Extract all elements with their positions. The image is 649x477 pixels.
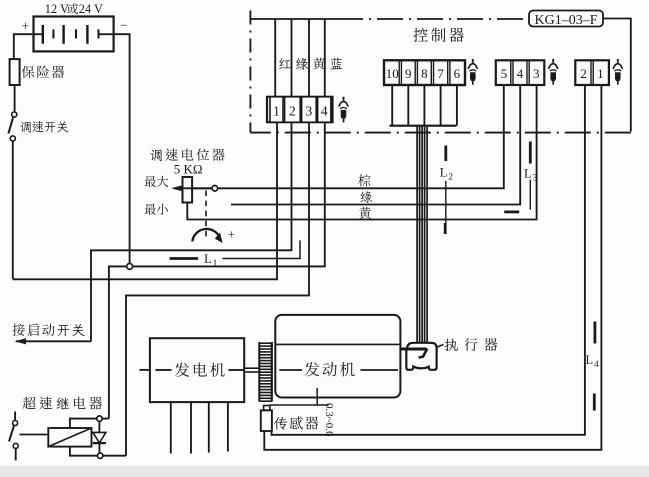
connector plug symbol (block 10-6): [468, 59, 478, 85]
svg-text:4: 4: [321, 103, 328, 118]
max label: [145, 176, 169, 187]
controller enclosure dash-dot boundary: [249, 11, 251, 133]
L2 cable marker: [440, 146, 453, 235]
potentiometer RP body: [183, 177, 193, 203]
air gap value 0.3-0.6: [323, 403, 335, 437]
wires terminals 1-4 rising to boundary: [274, 19, 276, 97]
controller label: [413, 28, 463, 42]
brown wire with wiper arrow to terminal 5: [174, 85, 504, 188]
battery label 12V or 24V: [45, 2, 103, 16]
svg-text:10: 10: [386, 66, 399, 81]
svg-text:L: L: [440, 165, 448, 179]
wire coil top to node: [70, 419, 97, 428]
terminal block 2-1: [575, 60, 609, 85]
wire color labels red green yellow blue: [279, 57, 342, 69]
svg-text:2: 2: [448, 171, 453, 181]
overspeed relay label: [23, 397, 102, 410]
svg-text:3: 3: [533, 66, 540, 81]
svg-text:KG1–03–F: KG1–03–F: [534, 13, 597, 28]
relay switch contact: [9, 412, 18, 461]
svg-text:3: 3: [305, 103, 312, 118]
connector header bar: [390, 125, 457, 127]
yellow wire pot bottom to terminal 3: [187, 85, 536, 220]
generator label: [175, 363, 225, 377]
green wire to terminal 4: [231, 85, 520, 205]
wire terminal 2 to sensor side: [272, 85, 585, 435]
connector plug symbol (block 5-4-3): [548, 59, 558, 85]
svg-text:0.3~0.6: 0.3~0.6: [323, 403, 335, 437]
svg-text:L: L: [524, 166, 532, 180]
engine label dashes: [279, 369, 302, 371]
engine inner line: [275, 343, 400, 345]
svg-text:L: L: [586, 353, 594, 367]
adjustment dashed link: [205, 191, 207, 238]
wires below block 10-6 to header: [391, 85, 393, 126]
wire bundle to actuator: [417, 126, 427, 342]
terminal block 1-4: [267, 97, 333, 122]
svg-text:2: 2: [580, 66, 587, 81]
svg-text:+: +: [21, 19, 29, 34]
actuator label: [444, 338, 497, 351]
wiper terminal node: [212, 186, 218, 192]
wire KG box to right edge: [603, 19, 631, 132]
wire bus y296 (terminal 3 to relay bottom): [126, 122, 309, 456]
sensor body: [261, 406, 272, 432]
svg-text:+: +: [228, 227, 235, 241]
L4 cable marker: [586, 322, 600, 411]
diode VD: [93, 421, 106, 453]
engine box: [275, 315, 400, 398]
flywheel ring gear: [259, 342, 272, 402]
junction node diode bottom: [98, 453, 103, 458]
generator label dashes: [156, 369, 172, 371]
actuator body: [406, 343, 436, 370]
svg-text:5: 5: [501, 66, 508, 81]
svg-text:3: 3: [533, 172, 538, 182]
L3 cable marker: [504, 142, 537, 212]
generator left stub: [139, 369, 150, 371]
generator output pins: [170, 402, 172, 453]
yellow label: [359, 207, 371, 219]
terminal block 5-4-3: [496, 60, 545, 85]
actuator lever: [419, 349, 428, 358]
svg-text:L: L: [204, 252, 212, 266]
wire battery+ to fuse: [14, 34, 34, 59]
generator box: [150, 338, 244, 402]
air gap dimension mark: [270, 388, 329, 405]
svg-text:−: −: [120, 18, 127, 33]
engine label: [305, 362, 355, 377]
wire battery- down to node: [114, 34, 130, 264]
svg-text:2: 2: [289, 103, 296, 118]
svg-text:4: 4: [594, 359, 599, 369]
switch S1 label: [20, 121, 68, 133]
L1 cable marker: [170, 240, 300, 268]
sensor label: [274, 416, 318, 429]
brown label: [358, 174, 370, 186]
actuator link bar: [400, 348, 426, 351]
terminal block 10-6: [384, 60, 465, 85]
green label: [360, 191, 372, 203]
wire contact to relay coil: [20, 434, 49, 436]
scan band bottom: [0, 466, 649, 477]
wire terminal 1 to sensor bottom: [264, 85, 601, 450]
svg-text:1: 1: [273, 103, 280, 118]
potentiometer value 5 Kohm: [174, 161, 203, 176]
min label: [145, 204, 168, 215]
connector plug symbol (block 1-4): [339, 97, 349, 123]
actuator label tick: [437, 345, 444, 348]
battery minus terminal label: [120, 18, 127, 33]
fuse label: [22, 66, 64, 78]
potentiometer RP label: [150, 148, 225, 161]
wire fuse to switch: [14, 85, 16, 112]
svg-text:6: 6: [454, 66, 461, 81]
svg-text:4: 4: [517, 66, 524, 81]
wire coil bottom to node and riser: [70, 447, 98, 456]
svg-text:12 V: 12 V: [45, 2, 69, 16]
wire bus y266 (node to terminal 4, branch to relay): [109, 122, 325, 418]
battery B1 12V/24V: [34, 17, 114, 52]
adjustment arc arrow: [192, 227, 235, 243]
switch S1 speed-control: [8, 112, 16, 141]
wire bus y280 (switch to terminal 1): [13, 122, 277, 279]
start switch label: [13, 323, 85, 336]
junction node battery-: [127, 264, 133, 270]
generator shaft to ring gear (double line): [244, 367, 259, 369]
svg-text:9: 9: [405, 66, 412, 81]
start switch arrow wire: [15, 338, 92, 344]
wire node to riser: [102, 418, 109, 420]
relay coil KA: [48, 428, 91, 447]
svg-text:5 KΩ: 5 KΩ: [174, 161, 203, 176]
junction node diode top: [97, 416, 102, 421]
connector plug symbol (block 2-1): [613, 59, 623, 85]
svg-text:1: 1: [597, 66, 604, 81]
svg-text:7: 7: [437, 66, 444, 81]
fuse FU: [10, 59, 20, 85]
svg-text:8: 8: [421, 66, 428, 81]
wire bus y250 (terminal 2 to start-switch branch): [91, 122, 292, 341]
battery plus terminal label: [21, 19, 29, 34]
svg-text:24 V: 24 V: [79, 2, 103, 16]
type label box KG1-03-F: [529, 11, 603, 29]
wire switch down to bus: [12, 141, 14, 279]
